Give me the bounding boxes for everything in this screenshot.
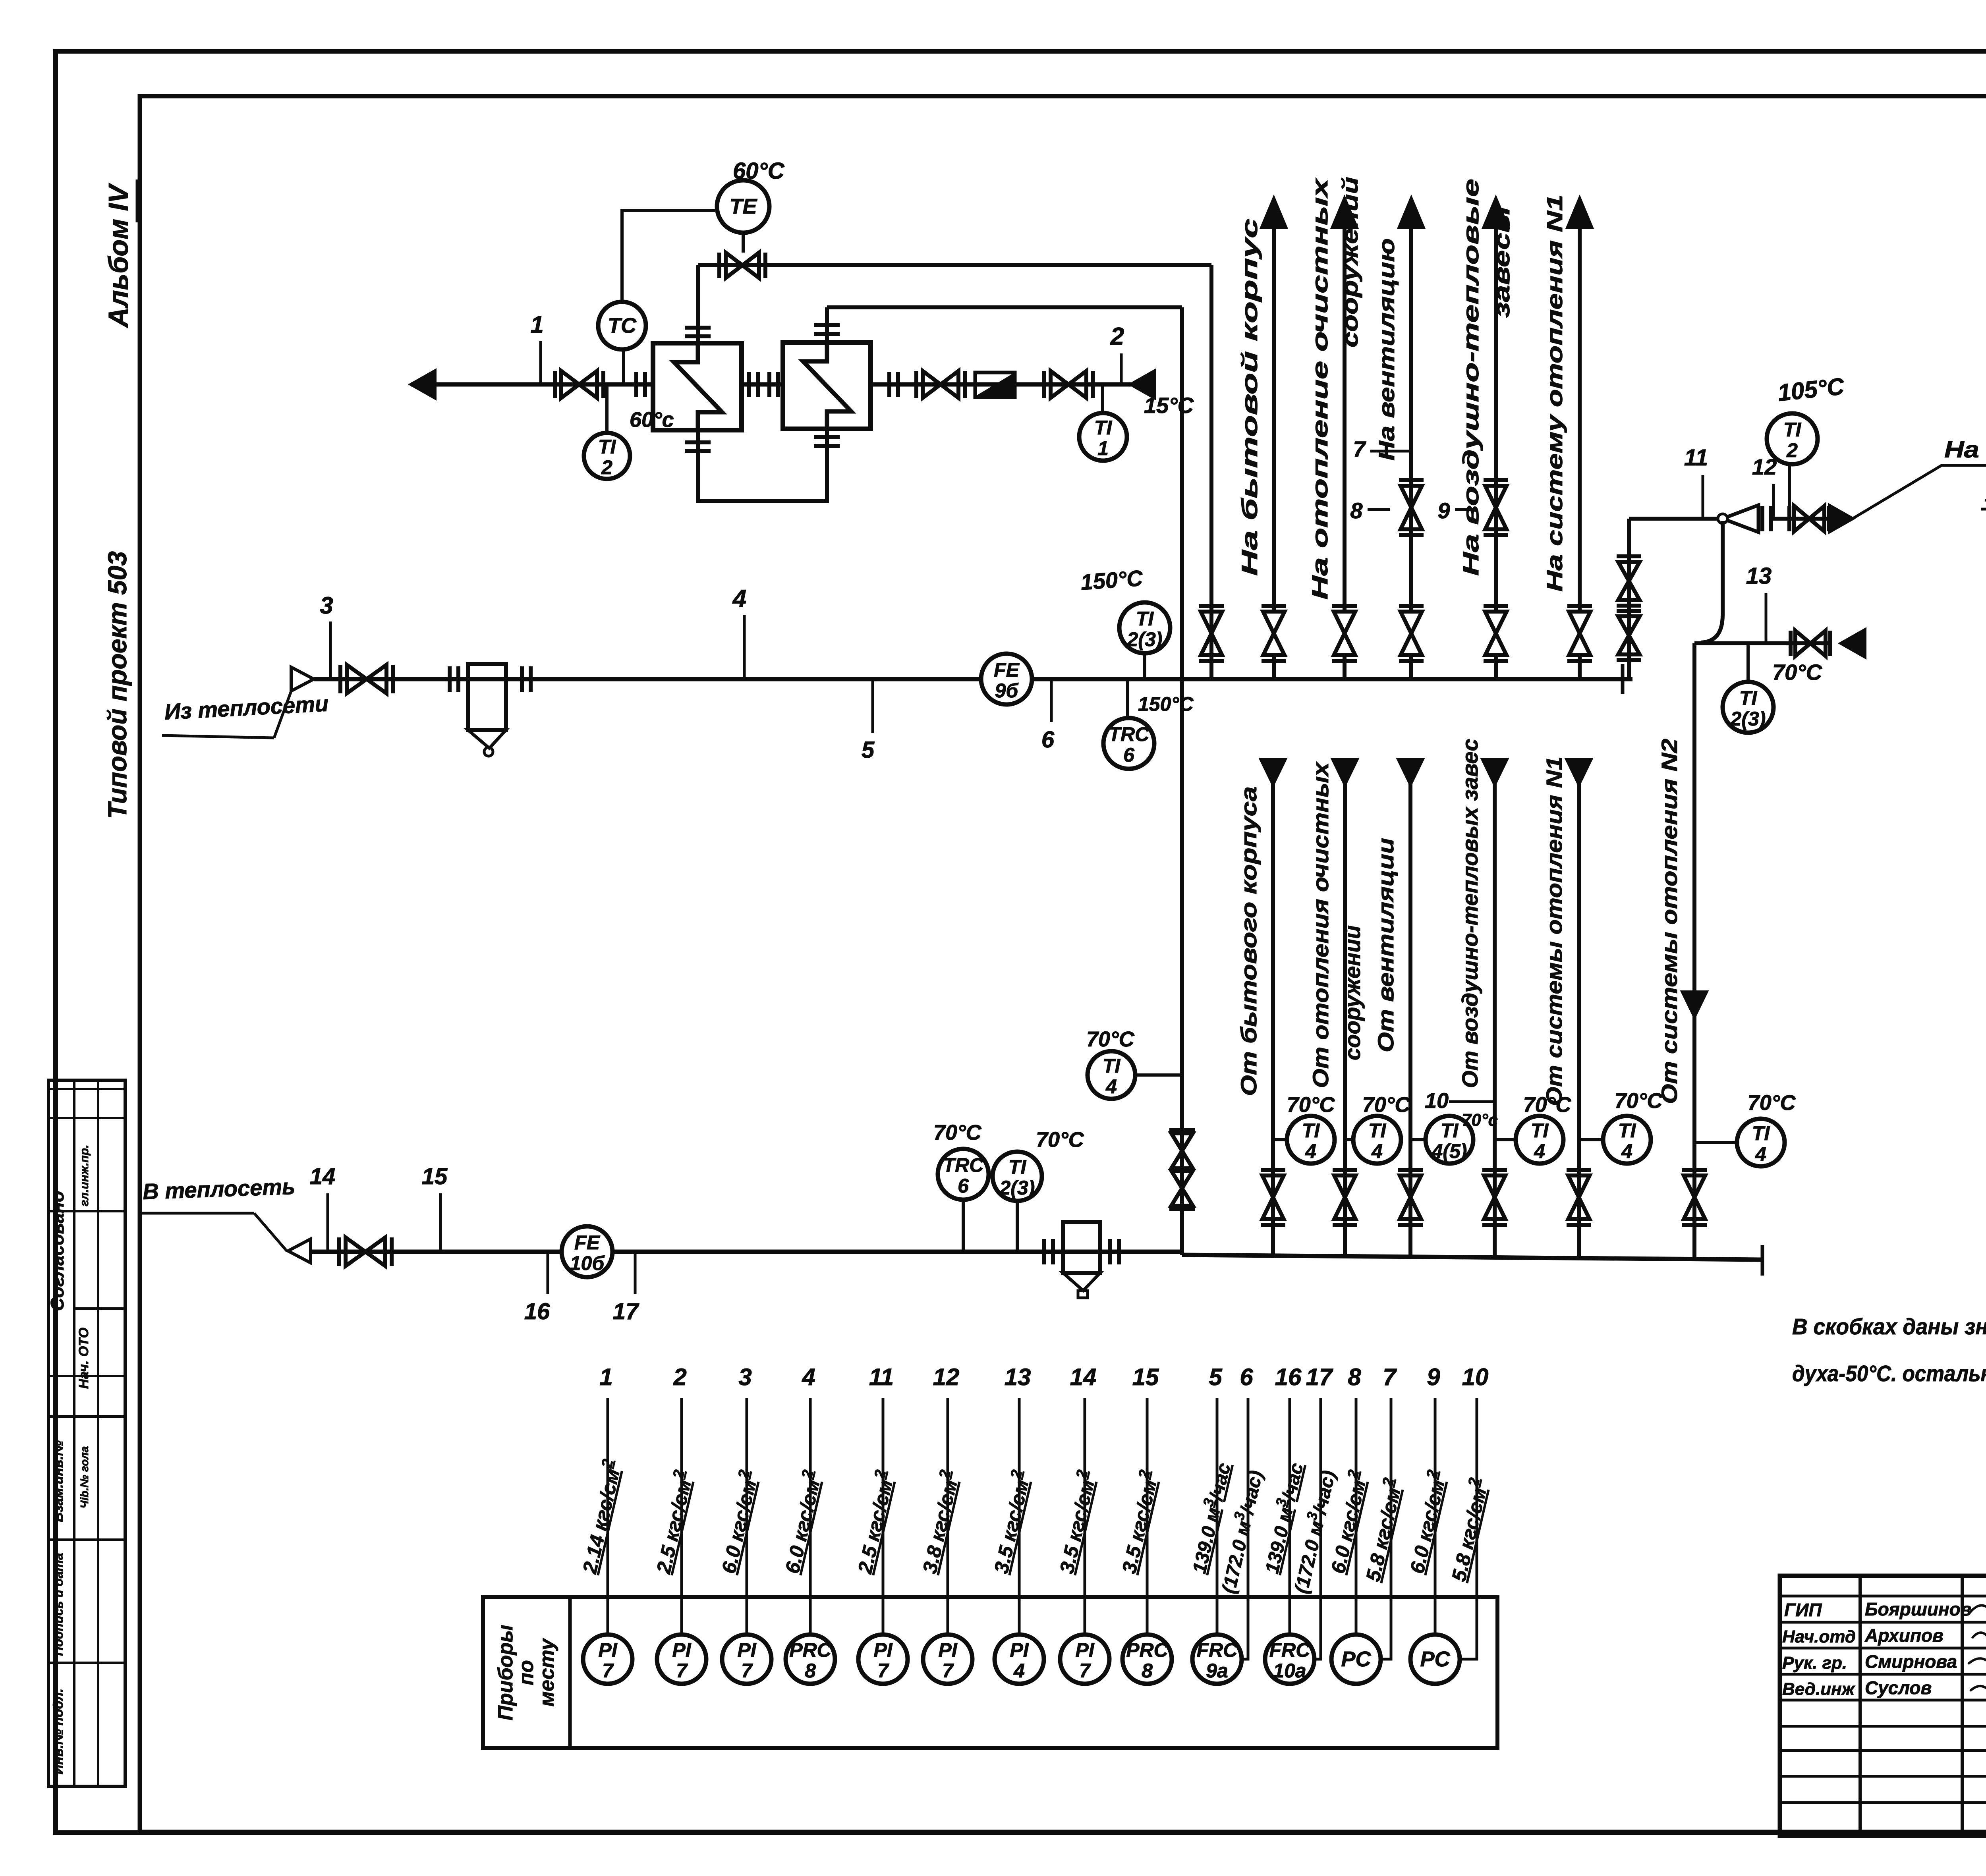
instrument PI 7 pos 2 xyxy=(657,1635,706,1684)
svg-text:На вентиляцию: На вентиляцию xyxy=(1374,238,1399,461)
svg-text:11: 11 xyxy=(1684,445,1708,471)
valve to system N2 xyxy=(1794,506,1824,531)
svg-text:TI: TI xyxy=(1136,608,1154,630)
svg-text:по: по xyxy=(515,1660,538,1685)
valve return outlet xyxy=(346,1237,385,1266)
svg-text:На воздушно-тепловые: На воздушно-тепловые xyxy=(1458,179,1483,576)
svg-text:9б: 9б xyxy=(995,679,1019,702)
signatures xyxy=(1970,1604,1986,1616)
title block row line xyxy=(1780,1725,1986,1728)
svg-text:PI: PI xyxy=(737,1639,756,1661)
instrument TI 2 xyxy=(584,433,630,479)
return riser from building A xyxy=(1271,762,1275,1258)
return riser from ventilation xyxy=(1408,762,1412,1258)
pipe elevator inlet xyxy=(1629,517,1723,521)
pipe HX1-HX2 bottom U xyxy=(698,429,827,501)
svg-text:1: 1 xyxy=(599,1364,612,1390)
svg-text:6: 6 xyxy=(1041,727,1055,753)
title block row line xyxy=(1780,1595,1986,1598)
svg-text:PRC: PRC xyxy=(789,1639,831,1661)
wire TI2(3) stem xyxy=(1143,653,1146,679)
svg-text:4: 4 xyxy=(1371,1140,1383,1162)
flange pairs between exchangers xyxy=(747,372,751,397)
svg-text:Инв.№ подл.: Инв.№ подл. xyxy=(51,1689,66,1775)
instrument TI 2(3) on supply xyxy=(1119,602,1170,653)
wire TI2 stem xyxy=(605,384,609,433)
node 17 tick xyxy=(634,1252,637,1294)
svg-text:TI: TI xyxy=(1441,1119,1459,1142)
title block row line xyxy=(1780,1647,1986,1650)
flow element FE 10b xyxy=(562,1226,612,1277)
svg-text:10: 10 xyxy=(1462,1364,1489,1390)
svg-text:14: 14 xyxy=(310,1164,336,1189)
svg-text:4: 4 xyxy=(1105,1075,1117,1098)
valve 8 on riser C xyxy=(1401,486,1422,529)
svg-text:8: 8 xyxy=(805,1660,816,1682)
svg-text:месту: месту xyxy=(535,1638,558,1707)
svg-text:17: 17 xyxy=(613,1299,639,1324)
svg-text:PI: PI xyxy=(1010,1639,1029,1661)
wire TI1 stem xyxy=(1101,384,1104,413)
flange pair before HX1 xyxy=(634,372,638,397)
arrow DHW cold inlet xyxy=(1131,371,1155,398)
riser to heating system 1 (supply) xyxy=(1578,228,1582,611)
wire TE stem xyxy=(742,233,745,253)
svg-text:4: 4 xyxy=(1534,1140,1545,1162)
svg-text:TC: TC xyxy=(608,314,637,338)
margin stamp table upper xyxy=(48,1080,125,1417)
svg-text:12: 12 xyxy=(933,1364,960,1390)
svg-text:FRC: FRC xyxy=(1197,1639,1238,1661)
svg-text:13: 13 xyxy=(1746,563,1772,589)
local instruments box xyxy=(483,1597,1497,1748)
svg-text:PI: PI xyxy=(938,1639,957,1661)
arrow from heating system N2 xyxy=(1841,630,1865,657)
svg-text:Чib.№ гола: Чib.№ гола xyxy=(78,1446,91,1509)
flange pair before strainer xyxy=(448,666,452,692)
pipe HX2 top to bypass xyxy=(825,307,829,342)
svg-text:Архипов: Архипов xyxy=(1864,1625,1943,1646)
pipe supply header xyxy=(314,677,1632,681)
svg-text:PI: PI xyxy=(598,1639,617,1661)
svg-text:Смирнова: Смирнова xyxy=(1865,1651,1957,1672)
svg-text:70°C: 70°C xyxy=(1362,1093,1411,1117)
svg-text:TI: TI xyxy=(1783,419,1802,441)
return riser from B xyxy=(1343,762,1347,1258)
node 12 tick xyxy=(1772,484,1775,519)
pipe bypass line y774 xyxy=(827,305,1182,309)
svg-text:7: 7 xyxy=(1383,1364,1397,1390)
flange pair after return strainer xyxy=(1108,1239,1112,1264)
svg-text:Вед.инж: Вед.инж xyxy=(1782,1679,1856,1699)
svg-text:6: 6 xyxy=(1123,744,1135,766)
control valve TE xyxy=(726,253,759,278)
pipe: DHW outlet line xyxy=(411,382,653,387)
svg-text:От вентиляции: От вентиляции xyxy=(1373,838,1398,1052)
title block row line xyxy=(1780,1699,1986,1702)
node 11 tick xyxy=(1702,475,1704,519)
pipe drop x3050 xyxy=(1209,265,1213,679)
svg-text:16: 16 xyxy=(524,1299,550,1324)
svg-text:3: 3 xyxy=(320,592,333,619)
node 6 tick xyxy=(1050,679,1053,722)
pipe HX1 hot inlet from top xyxy=(696,265,700,343)
svg-text:150°C: 150°C xyxy=(1138,693,1194,715)
title block row line xyxy=(1780,1801,1986,1804)
instrument PRC 8 pos 15 xyxy=(1122,1635,1172,1684)
instrument PI 7 pos 12 xyxy=(923,1635,972,1684)
heat exchanger E2 xyxy=(783,342,871,429)
pipe return header xyxy=(1182,1255,1762,1260)
svg-text:TRC: TRC xyxy=(1109,723,1150,745)
svg-text:сооружений: сооружений xyxy=(1337,177,1362,347)
svg-text:2: 2 xyxy=(1786,439,1798,461)
pipe riser to elevator xyxy=(1627,519,1631,679)
svg-text:PI: PI xyxy=(1075,1639,1094,1661)
svg-text:PC: PC xyxy=(1420,1647,1450,1671)
svg-text:7: 7 xyxy=(942,1660,954,1682)
valve on N2 return xyxy=(1795,631,1826,656)
instrument TC xyxy=(598,302,646,349)
svg-text:Бояршинов: Бояршинов xyxy=(1865,1599,1972,1619)
node 14 tick xyxy=(326,1193,329,1252)
valve on DHW outlet xyxy=(561,371,597,398)
flange pair before return strainer xyxy=(1042,1239,1046,1264)
svg-text:На отопление очистных: На отопление очистных xyxy=(1307,177,1332,600)
return header end bar xyxy=(1761,1245,1764,1276)
svg-text:От отопления очистных: От отопления очистных xyxy=(1308,761,1333,1088)
valve pair on elevator riser lower xyxy=(1618,616,1640,654)
instrument TI 2 hot xyxy=(1767,413,1818,464)
svg-text:Типовой проект 503: Типовой проект 503 xyxy=(102,551,132,819)
strainer on supply xyxy=(468,664,506,730)
instrument FRC 9a pos 5/6 xyxy=(1192,1635,1242,1684)
svg-text:4: 4 xyxy=(732,585,746,612)
double valve on cold drop xyxy=(1171,1133,1193,1168)
svg-text:TI: TI xyxy=(1302,1119,1320,1142)
svg-text:70°C: 70°C xyxy=(933,1121,982,1145)
svg-text:60°C: 60°C xyxy=(733,158,785,184)
svg-text:70°C: 70°C xyxy=(1615,1089,1663,1113)
svg-text:PI: PI xyxy=(873,1639,893,1661)
svg-text:TRC: TRC xyxy=(943,1154,984,1176)
controller TRC 6 return xyxy=(938,1149,989,1200)
instrument PC pos 9/10 xyxy=(1410,1635,1460,1684)
return riser from heating system 2 xyxy=(1692,643,1696,1260)
svg-text:Взам.инв.№: Взам.инв.№ xyxy=(51,1440,66,1522)
flange pair after strainer xyxy=(520,666,524,692)
svg-text:Альбом IV: Альбом IV xyxy=(103,183,134,328)
pipe return from N2 line xyxy=(1694,641,1832,645)
pipe DHW right section xyxy=(871,382,1131,387)
supply header end bar xyxy=(1621,664,1625,694)
svg-text:2(3): 2(3) xyxy=(999,1177,1035,1199)
svg-text:5: 5 xyxy=(862,737,875,763)
svg-text:В теплосеть: В теплосеть xyxy=(142,1174,296,1204)
valve 9 on riser D xyxy=(1485,486,1507,529)
svg-text:В скобках даны значения расход: В скобках даны значения расхода при темп… xyxy=(1792,1314,1986,1339)
svg-text:7: 7 xyxy=(1353,436,1366,461)
svg-text:PC: PC xyxy=(1341,1647,1371,1671)
svg-text:70°C: 70°C xyxy=(1086,1027,1135,1051)
title block row line xyxy=(1780,1775,1986,1778)
svg-text:Рук. гр.: Рук. гр. xyxy=(1782,1653,1847,1673)
instrument TI 4 on cold drop xyxy=(1088,1051,1135,1099)
svg-text:TI: TI xyxy=(1752,1122,1770,1145)
svg-text:От бытового корпуса: От бытового корпуса xyxy=(1236,786,1261,1096)
svg-text:7: 7 xyxy=(877,1660,889,1682)
node 16 tick xyxy=(547,1252,549,1294)
svg-text:2(3): 2(3) xyxy=(1127,628,1163,650)
instrument PI 7 pos 3 xyxy=(722,1635,771,1684)
riser to ventilation (supply) xyxy=(1409,228,1413,611)
svg-text:TI: TI xyxy=(1103,1055,1121,1077)
svg-text:сооружений: сооружений xyxy=(1340,925,1365,1060)
svg-text:4: 4 xyxy=(802,1364,815,1390)
valve supply inlet xyxy=(347,665,386,693)
node 5 tick xyxy=(871,679,874,733)
svg-text:От системы отопления N1: От системы отопления N1 xyxy=(1542,757,1567,1106)
svg-text:70°C: 70°C xyxy=(1748,1091,1796,1115)
svg-text:На систему отоп-: На систему отоп- xyxy=(1944,437,1986,463)
svg-text:TI: TI xyxy=(1368,1119,1387,1142)
svg-text:13: 13 xyxy=(1005,1364,1031,1390)
svg-text:2: 2 xyxy=(1110,323,1124,350)
svg-text:Нач.отд: Нач.отд xyxy=(1782,1627,1856,1646)
svg-text:15: 15 xyxy=(422,1164,448,1189)
svg-text:15: 15 xyxy=(1132,1364,1159,1390)
svg-text:9а: 9а xyxy=(1206,1660,1228,1682)
svg-text:8: 8 xyxy=(1142,1660,1153,1682)
valve on drop x3050 xyxy=(1201,612,1222,655)
svg-text:8: 8 xyxy=(1348,1364,1361,1390)
instrument PC pos 8/7 xyxy=(1331,1635,1381,1684)
node 3 tick xyxy=(329,621,332,679)
title block frame xyxy=(1780,1576,1986,1836)
margin stamp table lower xyxy=(48,1417,125,1786)
flange pair after HX2 xyxy=(887,372,891,397)
instrument FRC 10a pos 16/17 xyxy=(1265,1635,1314,1684)
svg-text:10: 10 xyxy=(1425,1089,1449,1113)
instrument PI 7 pos 1 xyxy=(583,1635,632,1684)
flow element FE 9b xyxy=(981,654,1032,704)
riser to building A (supply) xyxy=(1272,228,1276,611)
pipe return line xyxy=(311,1250,1182,1254)
return riser from heating system 1 xyxy=(1577,762,1581,1258)
svg-text:PI: PI xyxy=(672,1639,691,1661)
svg-text:На систему отопления N1: На систему отопления N1 xyxy=(1542,195,1567,592)
pipe cold water drop x2976 xyxy=(1180,307,1184,1255)
wire TRC6 stem xyxy=(1126,679,1129,718)
svg-text:От воздушно-тепловых завес: От воздушно-тепловых завес xyxy=(1457,739,1482,1088)
svg-text:10а: 10а xyxy=(1273,1660,1306,1682)
svg-text:16: 16 xyxy=(1275,1364,1302,1390)
instrument PRC 8 pos 4 xyxy=(786,1635,835,1684)
riser to building B (supply) xyxy=(1343,228,1347,611)
node 15 tick xyxy=(439,1193,442,1252)
svg-text:1: 1 xyxy=(530,311,543,338)
riser to air curtains (supply) xyxy=(1494,228,1498,611)
instrument PI 7 pos 14 xyxy=(1060,1635,1109,1684)
pipe elevator outlet xyxy=(1772,517,1832,521)
leader На систему отопления N2 xyxy=(1853,465,1986,519)
inlet arrow from heat network xyxy=(291,667,314,691)
svg-text:2: 2 xyxy=(673,1364,686,1390)
svg-text:70°с: 70°с xyxy=(1462,1110,1498,1130)
svg-text:7: 7 xyxy=(741,1660,753,1682)
svg-text:14: 14 xyxy=(1070,1364,1097,1390)
heat exchanger E1 xyxy=(653,343,742,430)
instrument PI 4 pos 13 xyxy=(995,1635,1044,1684)
svg-text:FE: FE xyxy=(994,659,1020,681)
svg-text:Нач. ОТО: Нач. ОТО xyxy=(76,1328,91,1389)
svg-text:9: 9 xyxy=(1437,498,1450,523)
valve DHW right 1 xyxy=(923,371,958,398)
svg-text:гл.инж.пр.: гл.инж.пр. xyxy=(78,1145,91,1206)
svg-text:4: 4 xyxy=(1621,1140,1632,1162)
elevator (ejector) xyxy=(1723,505,1758,532)
svg-text:9: 9 xyxy=(1427,1364,1440,1390)
node 13 tick xyxy=(1765,593,1768,643)
valve pair on elevator riser upper xyxy=(1618,562,1640,600)
svg-text:FE: FE xyxy=(574,1231,601,1254)
svg-text:Суслов: Суслов xyxy=(1865,1677,1932,1698)
svg-text:4: 4 xyxy=(1755,1143,1766,1165)
instrument TI 1 xyxy=(1079,413,1127,461)
pipe TE control line xyxy=(698,263,1211,267)
node 1 tick xyxy=(539,341,542,384)
check device xyxy=(975,372,1015,397)
svg-text:70°C: 70°C xyxy=(1772,660,1823,685)
wire TI2 stem xyxy=(1788,464,1791,519)
svg-text:7: 7 xyxy=(602,1660,614,1682)
outlet arrow to heat network xyxy=(288,1239,311,1263)
title block row line xyxy=(1780,1621,1986,1624)
node 4 tick xyxy=(743,615,746,679)
instrument PI 7 pos 11 xyxy=(858,1635,908,1684)
svg-text:4: 4 xyxy=(1305,1140,1316,1162)
wire TC to TE xyxy=(622,210,717,302)
svg-text:5: 5 xyxy=(1209,1364,1223,1390)
return riser from air curtains xyxy=(1493,762,1497,1258)
svg-text:150°C: 150°C xyxy=(1080,566,1144,595)
svg-text:6: 6 xyxy=(1240,1364,1253,1390)
svg-text:11: 11 xyxy=(869,1364,894,1390)
svg-text:FRC: FRC xyxy=(1269,1639,1311,1661)
svg-text:От системы отопления N2: От системы отопления N2 xyxy=(1657,739,1682,1104)
svg-text:На бытовой корпус: На бытовой корпус xyxy=(1237,218,1262,576)
svg-text:2(3): 2(3) xyxy=(1730,708,1766,730)
instrument TI 2(3) return xyxy=(993,1152,1042,1201)
svg-text:TI: TI xyxy=(1618,1119,1636,1142)
svg-text:TE: TE xyxy=(729,195,757,218)
svg-text:7: 7 xyxy=(1079,1660,1091,1682)
instrument TE xyxy=(717,180,769,233)
svg-text:TI: TI xyxy=(1739,687,1758,709)
svg-text:TI: TI xyxy=(1008,1156,1027,1178)
svg-text:TI: TI xyxy=(1531,1119,1549,1142)
svg-text:7: 7 xyxy=(676,1660,688,1682)
svg-text:70°C: 70°C xyxy=(1287,1093,1335,1117)
svg-text:Согласовано: Согласовано xyxy=(47,1191,68,1311)
svg-text:1: 1 xyxy=(1097,437,1109,459)
controller TRC 6 supply xyxy=(1103,718,1154,769)
svg-text:Приборы: Приборы xyxy=(494,1625,517,1720)
svg-text:4(5): 4(5) xyxy=(1432,1140,1467,1162)
instrument TI 2(3) on N2 return xyxy=(1723,682,1773,733)
svg-text:TI: TI xyxy=(1094,417,1113,439)
svg-text:ГИП: ГИП xyxy=(1784,1600,1822,1620)
title block row line xyxy=(1780,1749,1986,1752)
svg-text:6: 6 xyxy=(958,1175,969,1197)
svg-text:PRC: PRC xyxy=(1126,1639,1168,1661)
svg-text:8: 8 xyxy=(1350,498,1363,523)
arrow DHW out (left) xyxy=(411,371,435,398)
svg-text:10б: 10б xyxy=(570,1252,605,1274)
svg-text:17: 17 xyxy=(1306,1364,1333,1390)
arrow to heating system N2 xyxy=(1830,506,1853,532)
svg-text:духа-50°С. остальные параметры: духа-50°С. остальные параметры идентичны… xyxy=(1792,1361,1986,1386)
svg-text:TI: TI xyxy=(598,436,616,458)
node 2 tick xyxy=(1120,353,1123,384)
svg-text:4: 4 xyxy=(1013,1660,1025,1682)
wire TC to line xyxy=(622,349,625,384)
svg-text:70°C: 70°C xyxy=(1036,1128,1084,1152)
title block row line xyxy=(1780,1673,1986,1676)
svg-text:завесы: завесы xyxy=(1489,207,1514,318)
svg-text:2: 2 xyxy=(601,456,612,479)
strainer on return xyxy=(1063,1222,1100,1273)
valve DHW right 2 xyxy=(1051,371,1086,398)
svg-text:3: 3 xyxy=(738,1364,752,1390)
pipe between exchangers xyxy=(742,382,783,387)
pipe elevator suction xyxy=(1701,521,1723,643)
svg-text:Подпись и дата: Подпись и дата xyxy=(51,1553,66,1656)
